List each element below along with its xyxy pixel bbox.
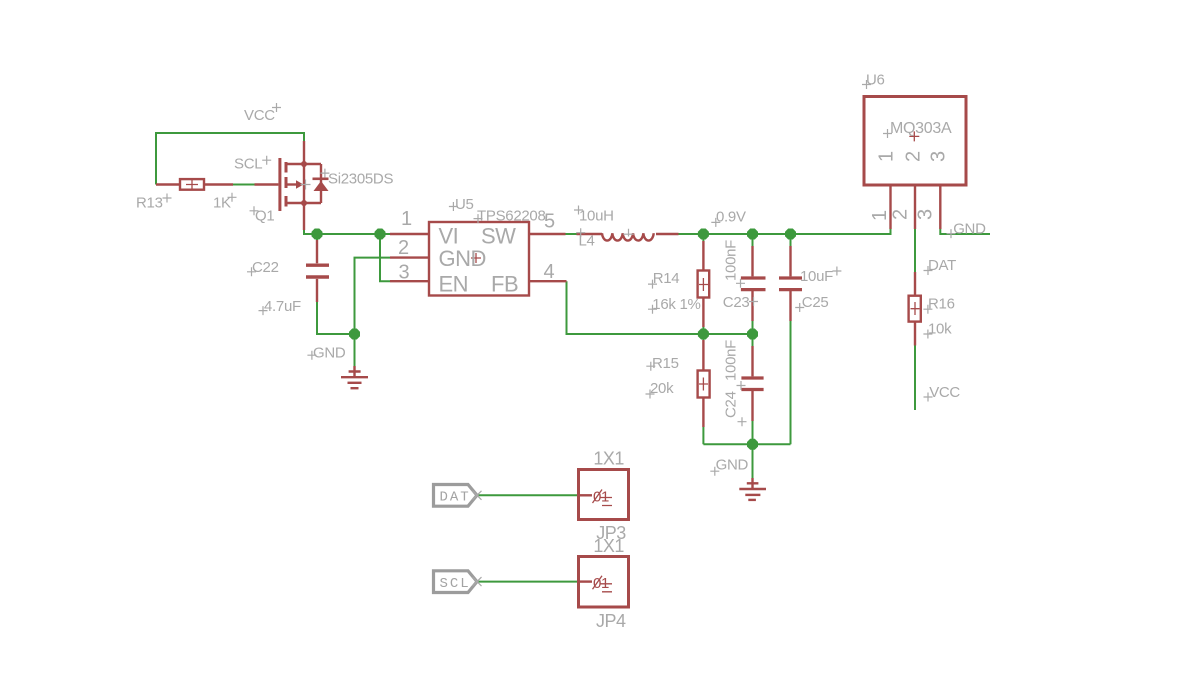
svg-text:VCC: VCC — [244, 107, 275, 124]
svg-text:SCL: SCL — [234, 156, 262, 173]
svg-text:DAT: DAT — [440, 490, 471, 506]
svg-text:2: 2 — [890, 209, 912, 220]
svg-text:U6: U6 — [866, 72, 885, 89]
svg-text:4.7uF: 4.7uF — [264, 298, 301, 315]
svg-text:1X1: 1X1 — [593, 448, 624, 468]
svg-text:5: 5 — [544, 211, 555, 233]
svg-text:10k: 10k — [928, 320, 952, 337]
svg-text:4: 4 — [544, 261, 555, 283]
svg-text:SCL: SCL — [440, 576, 471, 592]
svg-text:100nF: 100nF — [723, 340, 740, 381]
svg-text:SW: SW — [481, 223, 516, 248]
svg-text:GND: GND — [313, 345, 346, 362]
svg-text:16k 1%: 16k 1% — [652, 296, 700, 313]
svg-text:MQ303A: MQ303A — [890, 120, 952, 137]
svg-text:VI: VI — [439, 223, 459, 248]
svg-text:Q1: Q1 — [255, 208, 274, 225]
svg-text:Si2305DS: Si2305DS — [328, 171, 393, 188]
svg-text:R13: R13 — [136, 195, 163, 212]
svg-text:1: 1 — [401, 208, 412, 230]
svg-text:C23: C23 — [723, 294, 750, 311]
svg-text:C24: C24 — [723, 391, 740, 418]
svg-text:3: 3 — [928, 151, 950, 162]
svg-text:2: 2 — [903, 151, 925, 162]
svg-text:FB: FB — [491, 272, 518, 297]
svg-text:VCC: VCC — [929, 384, 960, 401]
svg-text:R15: R15 — [652, 355, 679, 372]
svg-text:100nF: 100nF — [723, 240, 740, 281]
svg-text:0.9V: 0.9V — [716, 209, 746, 226]
svg-text:JP4: JP4 — [596, 611, 626, 631]
svg-text:GND: GND — [439, 246, 486, 271]
svg-text:GND: GND — [716, 457, 749, 474]
svg-text:10uF: 10uF — [800, 268, 833, 285]
svg-text:3: 3 — [399, 262, 410, 284]
svg-text:GND: GND — [953, 221, 986, 238]
svg-text:TPS62208: TPS62208 — [477, 208, 545, 225]
svg-text:U5: U5 — [455, 196, 474, 213]
svg-text:C25: C25 — [802, 294, 829, 311]
svg-text:1: 1 — [876, 151, 898, 162]
svg-text:2: 2 — [398, 237, 409, 259]
svg-text:1X1: 1X1 — [593, 536, 624, 556]
svg-text:C22: C22 — [252, 259, 279, 276]
svg-text:10uH: 10uH — [579, 208, 614, 225]
svg-text:1: 1 — [869, 210, 891, 221]
svg-text:R16: R16 — [928, 296, 955, 313]
svg-text:3: 3 — [915, 209, 937, 220]
svg-text:EN: EN — [439, 272, 469, 297]
svg-text:DAT: DAT — [928, 257, 956, 274]
